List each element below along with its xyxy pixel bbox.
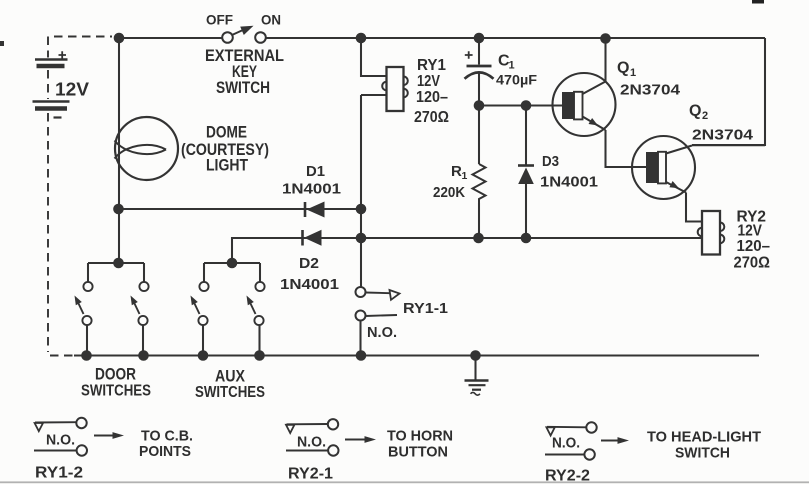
svg-text:RY2-2: RY2-2 <box>545 468 590 484</box>
svg-text:470µF: 470µF <box>496 72 537 88</box>
svg-text:Q: Q <box>617 60 629 77</box>
svg-text:LIGHT: LIGHT <box>206 156 249 175</box>
svg-text:N.O.: N.O. <box>367 325 397 341</box>
svg-text:SWITCHES: SWITCHES <box>81 383 151 400</box>
svg-text:270Ω: 270Ω <box>414 109 449 126</box>
svg-text:OFF: OFF <box>206 13 233 28</box>
svg-text:TO C.B.: TO C.B. <box>141 428 193 445</box>
svg-text:SWITCH: SWITCH <box>216 78 270 97</box>
svg-text:220K: 220K <box>433 185 465 201</box>
svg-text:1: 1 <box>462 170 468 182</box>
svg-text:D1: D1 <box>306 163 325 180</box>
svg-text:SWITCHES: SWITCHES <box>195 384 265 401</box>
svg-text:TO HORN: TO HORN <box>387 428 453 445</box>
svg-text:N.O.: N.O. <box>297 435 326 451</box>
svg-text:R: R <box>451 163 462 180</box>
svg-text:RY1-1: RY1-1 <box>403 300 448 317</box>
svg-text:POINTS: POINTS <box>139 443 191 460</box>
svg-text:12V: 12V <box>738 223 763 240</box>
svg-text:120–: 120– <box>416 89 448 106</box>
svg-text:Q: Q <box>689 103 701 120</box>
svg-text:ON: ON <box>261 13 281 28</box>
svg-text:D2: D2 <box>299 255 319 272</box>
svg-text:12V: 12V <box>55 80 89 100</box>
svg-text:BUTTON: BUTTON <box>388 444 448 461</box>
svg-text:RY1: RY1 <box>417 57 446 74</box>
svg-text:1N4001: 1N4001 <box>540 174 598 191</box>
svg-text:AUX: AUX <box>215 368 245 386</box>
svg-text:12V: 12V <box>417 73 441 90</box>
svg-text:2: 2 <box>702 110 708 122</box>
svg-text:270Ω: 270Ω <box>734 255 771 272</box>
svg-text:SWITCH: SWITCH <box>675 445 730 462</box>
svg-text:D3: D3 <box>542 153 559 170</box>
svg-text:TO HEAD-LIGHT: TO HEAD-LIGHT <box>647 429 761 446</box>
svg-text:2N3704: 2N3704 <box>692 127 754 144</box>
svg-text:N.O.: N.O. <box>46 433 75 449</box>
svg-text:RY1-2: RY1-2 <box>35 465 83 482</box>
svg-text:1N4001: 1N4001 <box>280 276 339 293</box>
svg-text:2N3704: 2N3704 <box>620 82 681 99</box>
svg-text:120–: 120– <box>737 238 771 255</box>
svg-text:N.O.: N.O. <box>552 436 580 452</box>
svg-text:1N4001: 1N4001 <box>282 181 341 198</box>
svg-text:1: 1 <box>630 67 636 79</box>
svg-text:RY2-1: RY2-1 <box>288 466 333 483</box>
svg-text:DOOR: DOOR <box>95 366 136 384</box>
svg-text:1: 1 <box>509 60 515 72</box>
svg-text:DOME: DOME <box>206 123 247 142</box>
